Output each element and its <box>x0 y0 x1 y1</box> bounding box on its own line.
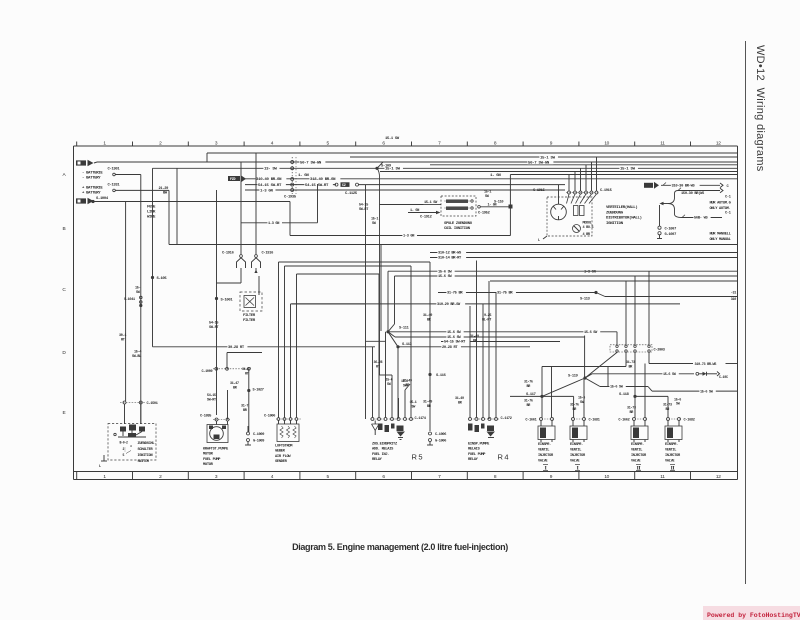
svg-text:15-6 SW: 15-6 SW <box>610 386 624 390</box>
svg-text:310-30 BR-WS: 310-30 BR-WS <box>672 185 696 189</box>
svg-text:C-1916: C-1916 <box>222 252 234 256</box>
svg-text:6: 6 <box>382 140 385 146</box>
svg-text:SW-RT: SW-RT <box>359 208 368 212</box>
svg-text:SW: SW <box>136 291 141 295</box>
svg-text:VENTIL: VENTIL <box>538 449 549 453</box>
svg-text:C-1952: C-1952 <box>478 211 490 215</box>
svg-text:ONLY MANUAL: ONLY MANUAL <box>709 238 731 242</box>
svg-text:ADD. RELAIS: ADD. RELAIS <box>372 448 394 452</box>
svg-text:E: E <box>63 410 66 416</box>
svg-text:MOTOR: MOTOR <box>203 463 214 467</box>
svg-text:-31: -31 <box>731 292 736 296</box>
svg-text:1- GN: 1- GN <box>490 174 501 178</box>
svg-text:310-73 BR-WS: 310-73 BR-WS <box>695 363 717 367</box>
svg-text:1-3 GN: 1-3 GN <box>403 235 414 239</box>
svg-text:A: A <box>63 172 67 178</box>
svg-text:310-14 BR-RT: 310-14 BR-RT <box>438 257 462 261</box>
svg-text:15-4: 15-4 <box>134 350 141 354</box>
svg-text:8: 8 <box>494 140 497 146</box>
svg-text:9-25: 9-25 <box>484 314 491 318</box>
svg-text:KRAFTST.PUMPE: KRAFTST.PUMPE <box>203 448 229 452</box>
svg-text:ZUENDUNG: ZUENDUNG <box>606 211 624 215</box>
svg-text:15-6 SW: 15-6 SW <box>700 390 714 394</box>
svg-text:S-1027: S-1027 <box>253 388 264 392</box>
svg-text:VALVE: VALVE <box>538 460 548 464</box>
svg-text:BR: BR <box>527 385 532 389</box>
svg-text:9: 9 <box>550 474 553 480</box>
svg-text:3: 3 <box>130 445 132 448</box>
svg-text:+ BATTERIE: + BATTERIE <box>82 187 103 191</box>
svg-text:15-1 SW: 15-1 SW <box>424 201 438 205</box>
svg-text:C-1501: C-1501 <box>147 402 158 406</box>
svg-text:31-47: 31-47 <box>242 368 251 372</box>
svg-text:C-1006: C-1006 <box>435 433 446 437</box>
svg-text:FZD: FZD <box>230 178 235 182</box>
svg-text:C: C <box>62 287 66 293</box>
svg-text:12: 12 <box>716 474 721 480</box>
svg-text:RT: RT <box>121 338 125 342</box>
svg-text:54-15: 54-15 <box>207 394 216 398</box>
svg-text:BR: BR <box>243 409 248 413</box>
svg-text:FUEL INJ.: FUEL INJ. <box>372 453 389 457</box>
svg-text:31-75 BR: 31-75 BR <box>447 292 463 296</box>
svg-text:SENDER: SENDER <box>275 460 288 464</box>
svg-text:31-49: 31-49 <box>423 314 432 318</box>
svg-text:BR: BR <box>573 408 578 412</box>
svg-text:SW-RT: SW-RT <box>209 326 219 330</box>
svg-text:GEBER: GEBER <box>275 450 286 454</box>
svg-text:310-12 BR-WS: 310-12 BR-WS <box>438 252 462 256</box>
svg-text:C-19C: C-19C <box>719 376 728 380</box>
svg-text:11: 11 <box>660 474 665 480</box>
svg-text:21-29: 21-29 <box>159 187 169 191</box>
svg-text:54-15 SW-RT: 54-15 SW-RT <box>444 341 466 345</box>
svg-text:C2: C2 <box>342 184 346 188</box>
svg-text:NUR MANUELL: NUR MANUELL <box>709 233 731 237</box>
svg-text:BR: BR <box>458 401 463 405</box>
svg-text:SW: SW <box>676 403 681 407</box>
svg-text:INJECTOR: INJECTOR <box>570 454 586 458</box>
svg-text:15-6 SW: 15-6 SW <box>663 373 677 377</box>
svg-text:MOTOR: MOTOR <box>203 453 214 457</box>
svg-text:NUR AUTOM.G: NUR AUTOM.G <box>709 201 731 205</box>
svg-text:BR: BR <box>427 405 432 409</box>
svg-text:FILTER: FILTER <box>243 314 256 318</box>
svg-text:- BATTERY: - BATTERY <box>82 177 101 181</box>
svg-text:C-1006: C-1006 <box>264 415 275 419</box>
svg-text:C-1009: C-1009 <box>253 433 264 437</box>
svg-text:C-1009: C-1009 <box>202 370 213 374</box>
svg-text:AIR FLOW: AIR FLOW <box>275 455 291 459</box>
svg-text:RELAY: RELAY <box>372 458 383 462</box>
svg-text:2: 2 <box>123 447 125 451</box>
svg-text:C-1681: C-1681 <box>589 418 600 422</box>
svg-text:56B- WS: 56B- WS <box>694 217 708 221</box>
svg-text:C-1662: C-1662 <box>618 418 629 422</box>
svg-text:C-2003: C-2003 <box>654 348 665 352</box>
svg-text:5: 5 <box>123 453 125 457</box>
svg-text:54-15 SW-RT: 54-15 SW-RT <box>258 184 282 188</box>
svg-text:ONLY AUTOM.: ONLY AUTOM. <box>709 207 730 211</box>
svg-text:15-1 SW: 15-1 SW <box>385 137 400 141</box>
svg-text:15-1 SW: 15-1 SW <box>540 156 556 160</box>
svg-text:INJECTOR: INJECTOR <box>665 454 681 458</box>
svg-text:318-40 BR-GN: 318-40 BR-GN <box>310 178 336 182</box>
svg-text:3: 3 <box>215 140 218 146</box>
svg-text:B: B <box>63 226 66 232</box>
svg-text:36-28: 36-28 <box>374 361 383 365</box>
svg-text:S-118: S-118 <box>619 393 630 397</box>
svg-text:15-6 SW: 15-6 SW <box>584 331 598 335</box>
svg-text:C-1682: C-1682 <box>684 418 695 422</box>
svg-text:C-1125: C-1125 <box>345 192 358 196</box>
svg-text:6: 6 <box>382 474 385 480</box>
svg-text:3: 3 <box>215 474 218 480</box>
svg-text:S-1001: S-1001 <box>221 298 234 302</box>
svg-text:31-75 BR: 31-75 BR <box>497 292 513 296</box>
svg-text:EINSPR.: EINSPR. <box>665 443 678 447</box>
svg-text:EINSPR.: EINSPR. <box>570 443 583 447</box>
svg-text:SW-BL: SW-BL <box>132 355 141 359</box>
svg-text:C-1331: C-1331 <box>108 184 121 188</box>
svg-text:C-1: C-1 <box>725 211 731 215</box>
svg-text:C-1174: C-1174 <box>415 417 427 421</box>
svg-text:WIRE: WIRE <box>147 216 156 220</box>
svg-text:8: 8 <box>494 474 497 480</box>
svg-text:IGNITION: IGNITION <box>606 222 624 226</box>
svg-text:G-1007: G-1007 <box>665 233 677 237</box>
svg-text:SW: SW <box>485 195 490 199</box>
svg-text:R 4: R 4 <box>498 453 509 462</box>
svg-text:B-0-2: B-0-2 <box>120 441 128 445</box>
svg-text:310-20 BR-SW: 310-20 BR-SW <box>437 303 461 307</box>
svg-text:BR: BR <box>666 408 671 412</box>
svg-text:C-1912: C-1912 <box>420 216 432 220</box>
svg-text:15-6 SW: 15-6 SW <box>438 275 452 279</box>
svg-text:C-1035: C-1035 <box>200 415 211 419</box>
svg-text:C-1935: C-1935 <box>284 196 297 200</box>
svg-text:D: D <box>62 350 66 356</box>
svg-text:12: 12 <box>716 140 721 146</box>
svg-text:S-111: S-111 <box>399 327 410 331</box>
svg-text:54-15: 54-15 <box>359 204 368 208</box>
svg-text:1: 1 <box>103 140 106 146</box>
svg-text:7: 7 <box>438 140 441 146</box>
svg-text:VERTEILER(HALL): VERTEILER(HALL) <box>606 205 638 210</box>
svg-text:30-28 RT: 30-28 RT <box>228 346 245 350</box>
svg-text:L: L <box>99 465 101 469</box>
svg-text:S-113: S-113 <box>580 298 591 302</box>
svg-text:4 BR: 4 BR <box>583 233 591 237</box>
svg-text:31-7k: 31-7k <box>524 380 533 385</box>
svg-text:S-119: S-119 <box>568 375 578 379</box>
svg-text:VALVE: VALVE <box>570 460 580 464</box>
svg-text:50-7 SW-GN: 50-7 SW-GN <box>528 161 550 165</box>
svg-text:31-47: 31-47 <box>230 382 239 386</box>
svg-text:RELAIS: RELAIS <box>468 448 481 452</box>
svg-text:G-1009: G-1009 <box>253 440 264 444</box>
svg-text:INJECTOR: INJECTOR <box>538 454 554 458</box>
svg-text:SPULE ZUENDUNG: SPULE ZUENDUNG <box>444 222 473 226</box>
svg-text:10: 10 <box>604 140 609 146</box>
svg-text:9: 9 <box>550 140 553 146</box>
svg-text:BW: BW <box>163 192 168 196</box>
svg-text:R 5: R 5 <box>412 453 423 462</box>
svg-text:S-109: S-109 <box>381 164 392 168</box>
svg-text:150-30 BR(WS: 150-30 BR(WS <box>681 191 705 196</box>
svg-text:7: 7 <box>438 474 441 480</box>
svg-text:S-105: S-105 <box>157 277 168 281</box>
svg-text:4: 4 <box>271 140 274 146</box>
svg-text:EINSP.PUMPE: EINSP.PUMPE <box>468 443 490 447</box>
svg-text:VENTIL: VENTIL <box>570 449 581 453</box>
svg-text:IGNITION: IGNITION <box>138 454 153 458</box>
svg-text:COIL IGNITION: COIL IGNITION <box>444 227 471 231</box>
svg-text:SCHALTER: SCHALTER <box>138 448 154 452</box>
svg-text:4 BO.6: 4 BO.6 <box>583 226 594 230</box>
svg-text:5: 5 <box>327 140 330 146</box>
svg-text:MODUL: MODUL <box>583 222 592 226</box>
svg-text:LUFTSTROM: LUFTSTROM <box>275 445 293 449</box>
svg-text:10: 10 <box>604 474 609 480</box>
svg-text:15-1 SW: 15-1 SW <box>620 168 636 172</box>
svg-text:ZUS.EINSPRITZ: ZUS.EINSPRITZ <box>372 443 398 447</box>
svg-text:EINSPR.: EINSPR. <box>631 443 644 447</box>
svg-text:11: 11 <box>660 140 665 146</box>
svg-text:RT: RT <box>376 365 380 369</box>
svg-text:S-1004: S-1004 <box>96 197 109 201</box>
svg-text:VALVE: VALVE <box>665 460 675 464</box>
svg-text:BR: BR <box>233 387 238 391</box>
svg-text:1- GN: 1- GN <box>488 204 497 208</box>
svg-text:15-6: 15-6 <box>386 379 393 383</box>
svg-text:FUEL PUMP: FUEL PUMP <box>468 453 486 457</box>
svg-text:C: C <box>727 185 730 189</box>
svg-text:LINK: LINK <box>147 211 156 215</box>
svg-text:C-1007: C-1007 <box>665 227 677 231</box>
svg-text:31-7k: 31-7k <box>570 403 579 408</box>
svg-text:5: 5 <box>327 474 330 480</box>
svg-text:EINSPR.: EINSPR. <box>538 443 551 447</box>
svg-text:C-1915: C-1915 <box>533 189 546 193</box>
svg-text:1-3 GN: 1-3 GN <box>260 189 274 193</box>
svg-text:31-49: 31-49 <box>423 401 432 405</box>
svg-text:RT: RT <box>245 373 249 377</box>
svg-text:4: 4 <box>271 474 274 480</box>
svg-text:RELAY: RELAY <box>468 458 479 462</box>
svg-text:S-116: S-116 <box>436 374 446 378</box>
svg-text:310-40 BR-GN: 310-40 BR-GN <box>256 178 282 182</box>
svg-text:50-7 SW-GN: 50-7 SW-GN <box>300 161 322 165</box>
svg-text:1- GN: 1- GN <box>410 209 419 213</box>
svg-text:VENTIL: VENTIL <box>631 449 642 453</box>
svg-text:30-1: 30-1 <box>119 334 126 338</box>
svg-text:15-1: 15-1 <box>371 218 378 222</box>
svg-text:15-1: 15-1 <box>484 191 491 195</box>
svg-text:SW: SW <box>412 405 417 409</box>
svg-text:1: 1 <box>103 474 106 480</box>
svg-text:BR: BR <box>527 404 532 408</box>
svg-text:SW: SW <box>372 222 377 226</box>
svg-text:C-1915: C-1915 <box>600 189 613 193</box>
svg-text:DISTRIBUTOR(HALL): DISTRIBUTOR(HALL) <box>606 216 642 221</box>
svg-text:2: 2 <box>159 474 162 480</box>
svg-text:C-1172: C-1172 <box>501 417 512 421</box>
svg-text:S-1041: S-1041 <box>124 298 135 302</box>
svg-text:BR: BR <box>427 319 432 323</box>
svg-text:FILTER: FILTER <box>243 319 256 323</box>
svg-text:ZUENDSCHL.: ZUENDSCHL. <box>138 442 157 446</box>
svg-text:20-28 RT: 20-28 RT <box>442 346 458 350</box>
svg-text:C-1661: C-1661 <box>525 418 536 422</box>
svg-text:L: L <box>538 239 540 243</box>
svg-text:+ BATTERY: + BATTERY <box>82 192 101 196</box>
svg-text:C-1916: C-1916 <box>262 252 274 256</box>
svg-text:VENTIL: VENTIL <box>665 449 676 453</box>
svg-text:C-1301: C-1301 <box>108 168 121 172</box>
svg-text:VALVE: VALVE <box>631 460 641 464</box>
svg-text:INJECTOR: INJECTOR <box>631 454 647 458</box>
svg-text:54-15 SW-RT: 54-15 SW-RT <box>305 184 329 188</box>
svg-text:- BATTERIE: - BATTERIE <box>82 172 103 176</box>
svg-text:31-7k: 31-7k <box>524 399 533 404</box>
svg-text:13- SW: 13- SW <box>264 168 278 172</box>
svg-text:15-: 15- <box>135 287 141 291</box>
svg-text:BR: BR <box>629 366 634 370</box>
svg-text:310: 310 <box>731 298 736 302</box>
svg-text:15-6 SW: 15-6 SW <box>447 331 461 335</box>
svg-text:2: 2 <box>159 140 162 146</box>
svg-text:1-3 GN: 1-3 GN <box>268 222 279 226</box>
svg-text:54-15: 54-15 <box>209 322 218 326</box>
svg-text:SW-RT: SW-RT <box>207 399 216 403</box>
svg-text:SWITCH: SWITCH <box>138 460 149 464</box>
svg-text:BR: BR <box>630 411 635 415</box>
svg-text:FUEL PUMP: FUEL PUMP <box>203 458 221 462</box>
svg-text:C-1: C-1 <box>725 195 731 199</box>
svg-text:31-7: 31-7 <box>241 405 248 409</box>
svg-text:G-1006: G-1006 <box>435 440 446 444</box>
svg-text:FUSE: FUSE <box>147 206 156 210</box>
svg-text:SW: SW <box>387 383 392 387</box>
svg-text:1- GN: 1- GN <box>298 174 309 178</box>
